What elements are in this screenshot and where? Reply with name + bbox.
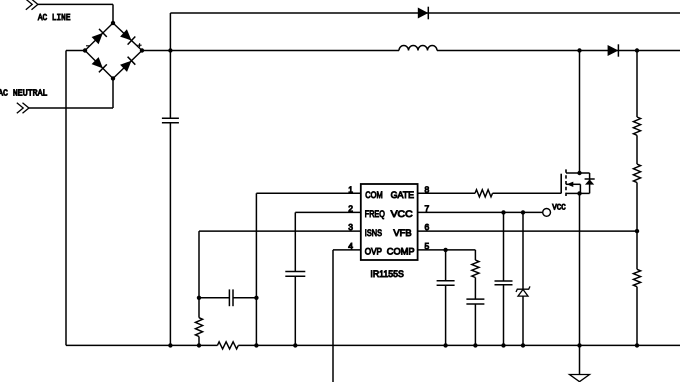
svg-text:VCC: VCC: [552, 203, 566, 212]
svg-text:COM: COM: [365, 189, 383, 200]
svg-text:IR1155S: IR1155S: [370, 268, 404, 279]
svg-text:AC NEUTRAL: AC NEUTRAL: [0, 88, 48, 99]
svg-text:GATE: GATE: [391, 189, 415, 200]
svg-text:COMP: COMP: [387, 246, 415, 257]
svg-text:FREQ: FREQ: [365, 208, 385, 219]
svg-text:VCC: VCC: [391, 208, 413, 219]
svg-text:VFB: VFB: [393, 227, 411, 238]
svg-text:ISNS: ISNS: [365, 227, 382, 238]
svg-text:AC LINE: AC LINE: [38, 12, 71, 23]
svg-text:OVP: OVP: [365, 246, 382, 257]
